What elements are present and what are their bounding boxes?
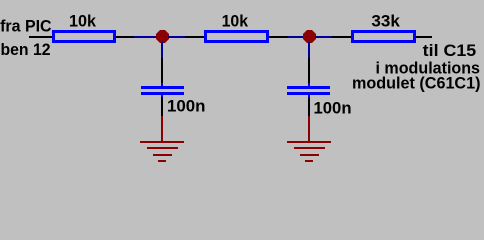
ground symbol GND2 (287, 116, 331, 162)
wire: C1 top pin lead (161, 58, 163, 83)
node B junction dot (303, 30, 316, 43)
node A junction dot (156, 30, 169, 43)
resistor R3 33k (351, 12, 416, 43)
svg-text:100n: 100n (167, 97, 206, 116)
node label "til C15 i modulations modulet (C61C1)" (output) (352, 41, 481, 93)
wire: net node B down to C2 (308, 42, 310, 58)
wire: R2 right pin lead (269, 36, 288, 38)
wire: C2 bottom pin lead (308, 97, 310, 116)
wire: R3 right pin lead (output) (416, 36, 432, 38)
resistor R1 10k (52, 12, 116, 43)
wire: net node B to R3 (315, 36, 332, 38)
wire: net R2 to node B (288, 36, 303, 38)
capacitor C2 100n (287, 83, 352, 118)
wire: R3 left pin lead (332, 36, 352, 38)
svg-text:10k: 10k (222, 12, 249, 31)
wire: C2 top pin lead (308, 58, 310, 83)
svg-text:til C15: til C15 (423, 41, 477, 60)
capacitor C1 100n (141, 83, 206, 116)
wire: R2 left pin lead (185, 36, 205, 38)
svg-text:ben 12: ben 12 (1, 40, 51, 59)
svg-text:100n: 100n (314, 99, 352, 118)
svg-text:modulet (C61C1): modulet (C61C1) (352, 74, 481, 93)
svg-text:33k: 33k (371, 12, 400, 31)
resistor R2 10k (204, 12, 269, 43)
wire: net node A down to C1 (161, 42, 163, 58)
wire: net R1 to node A (134, 36, 157, 38)
wire: R1 right pin lead (116, 36, 134, 38)
wire: net node A to R2 (168, 36, 185, 38)
svg-text:fra PIC: fra PIC (0, 17, 52, 36)
wire: input lead to R1 (29, 36, 53, 38)
wire: C1 bottom pin lead (161, 97, 163, 116)
svg-text:10k: 10k (69, 12, 97, 31)
node label "fra PIC ben 12" (input) (0, 17, 52, 59)
ground symbol GND1 (140, 116, 184, 162)
